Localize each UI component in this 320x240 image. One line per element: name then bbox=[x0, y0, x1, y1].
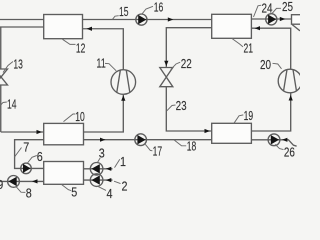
heat exchanger 19 bbox=[212, 123, 252, 143]
leader 19 bbox=[234, 115, 243, 123]
wire into evaporator 10 bbox=[1, 131, 44, 133]
heat exchanger 21 bbox=[212, 14, 252, 38]
leader 20 bbox=[273, 63, 282, 69]
arrow into box 21 bbox=[255, 26, 261, 30]
svg-text:24: 24 bbox=[262, 1, 273, 16]
arrow into evaporator 19 bbox=[205, 129, 211, 133]
wire left top into condenser 12 bbox=[0, 19, 44, 21]
svg-text:9: 9 bbox=[0, 177, 3, 192]
compressor 11 bbox=[111, 70, 136, 95]
leader 24 bbox=[254, 5, 262, 17]
expansion valve 13 14 bbox=[0, 69, 8, 77]
leader 4 bbox=[98, 187, 106, 191]
pump 3 rotor bbox=[92, 164, 100, 173]
arrow compressor 11 suction up bbox=[121, 95, 125, 101]
svg-text:10: 10 bbox=[75, 109, 85, 124]
svg-text:8: 8 bbox=[26, 185, 32, 200]
arrow pump 8 line left bbox=[32, 179, 38, 183]
pump 26 bbox=[268, 134, 280, 146]
svg-text:7: 7 bbox=[23, 139, 29, 154]
leader 10 bbox=[64, 114, 76, 122]
svg-text:13: 13 bbox=[13, 56, 23, 71]
wire pump 26 bbox=[251, 140, 296, 146]
pump 8 bbox=[8, 176, 20, 188]
leader 7 bbox=[15, 148, 22, 158]
wire water line 18 left bbox=[84, 139, 212, 141]
svg-text:21: 21 bbox=[244, 40, 254, 55]
svg-text:1: 1 bbox=[120, 154, 126, 169]
pump 16 bbox=[136, 14, 147, 25]
svg-text:5: 5 bbox=[71, 184, 77, 199]
svg-text:17: 17 bbox=[153, 144, 163, 159]
heat exchanger 12 bbox=[44, 15, 83, 39]
pump 4 bbox=[90, 174, 103, 187]
svg-text:3: 3 bbox=[99, 145, 105, 160]
arrow valve 22 down bbox=[164, 61, 168, 67]
leader 22 bbox=[171, 62, 180, 69]
pump 16 rotor bbox=[138, 15, 146, 24]
svg-text:12: 12 bbox=[76, 40, 86, 55]
arrow into evaporator 10 bbox=[37, 130, 43, 134]
tank 5 bbox=[44, 162, 84, 185]
svg-text:16: 16 bbox=[154, 0, 164, 15]
wire left edge vertical valve to evaporator line bbox=[0, 85, 2, 132]
wire 7 bbox=[15, 140, 44, 169]
svg-text:22: 22 bbox=[181, 56, 192, 71]
svg-text:15: 15 bbox=[119, 4, 129, 19]
heat exchanger 10 bbox=[44, 123, 84, 144]
leader 15 bbox=[113, 16, 119, 20]
svg-text:18: 18 bbox=[187, 139, 197, 154]
wire left edge vertical down to valve bbox=[0, 27, 2, 69]
wire 24 pump 25 line bbox=[251, 18, 291, 20]
arrow after pump 26 left bbox=[282, 138, 288, 142]
wire valve 22 feed bbox=[166, 28, 211, 68]
leader 12 bbox=[63, 39, 76, 44]
svg-text:2: 2 bbox=[122, 179, 128, 194]
leader 11 bbox=[105, 63, 116, 70]
wire stub pump 3 bbox=[84, 168, 113, 170]
svg-text:19: 19 bbox=[244, 108, 254, 123]
pump 6 rotor bbox=[23, 164, 31, 173]
pump 17 rotor bbox=[137, 135, 145, 144]
arrow stub 1 left bbox=[106, 167, 112, 171]
wire compressor 11 discharge bbox=[83, 29, 124, 70]
svg-text:25: 25 bbox=[282, 0, 293, 14]
leader 2 bbox=[114, 181, 121, 183]
arrow after pump 25 bbox=[280, 17, 286, 21]
wire compressor 20 suction bbox=[251, 93, 290, 131]
leader 17 bbox=[145, 144, 152, 151]
arrow compressor 20 suction up bbox=[289, 95, 293, 101]
pump 26 rotor bbox=[271, 135, 279, 144]
arrow top connector right bbox=[168, 17, 174, 21]
svg-text:14: 14 bbox=[7, 97, 17, 112]
wire compressor 20 discharge bbox=[251, 28, 290, 69]
svg-text:6: 6 bbox=[37, 149, 43, 164]
leader 26 bbox=[275, 144, 283, 149]
leader 21 bbox=[232, 38, 243, 47]
pump 6 bbox=[21, 163, 32, 174]
compressor 20 bbox=[278, 69, 302, 93]
arrow water line before pump 17 bbox=[100, 138, 106, 142]
pump 8 rotor bbox=[8, 177, 16, 186]
leader 1 bbox=[115, 159, 120, 167]
leader 25 bbox=[272, 8, 281, 13]
wire stub pump 4 bbox=[84, 179, 113, 181]
pump 3 bbox=[90, 163, 103, 176]
wire compressor 11 suction bbox=[84, 94, 124, 132]
leader cut label top right bbox=[292, 25, 300, 31]
wire 15 top connector bbox=[83, 19, 212, 21]
svg-text:11: 11 bbox=[96, 55, 106, 70]
svg-text:26: 26 bbox=[284, 144, 295, 159]
pump 25 bbox=[266, 14, 277, 25]
expansion valve 22 bbox=[160, 68, 173, 78]
leader 13 bbox=[3, 62, 13, 73]
wire valve 22 to evaporator 19 bbox=[166, 87, 211, 131]
wire pump 8 out bbox=[0, 180, 44, 182]
svg-text:23: 23 bbox=[176, 98, 187, 113]
leader 16 bbox=[142, 6, 154, 14]
leader 5 bbox=[61, 184, 71, 190]
leader 18 bbox=[174, 140, 186, 146]
svg-text:20: 20 bbox=[260, 57, 271, 72]
load box top right bbox=[292, 15, 304, 25]
leader 6 bbox=[28, 156, 37, 164]
svg-text:4: 4 bbox=[107, 186, 113, 200]
leader 8 bbox=[16, 187, 25, 193]
pump 25 rotor bbox=[268, 15, 276, 24]
leader 3 bbox=[98, 158, 101, 162]
pump 17 bbox=[135, 134, 147, 146]
pump 4 rotor bbox=[92, 175, 100, 184]
wire left second into condenser 12 bbox=[0, 26, 44, 28]
leader 14 bbox=[0, 102, 7, 106]
arrow into box 12 bbox=[87, 27, 93, 31]
leader 23 bbox=[167, 105, 176, 111]
arrow stub 2 left bbox=[106, 178, 112, 182]
